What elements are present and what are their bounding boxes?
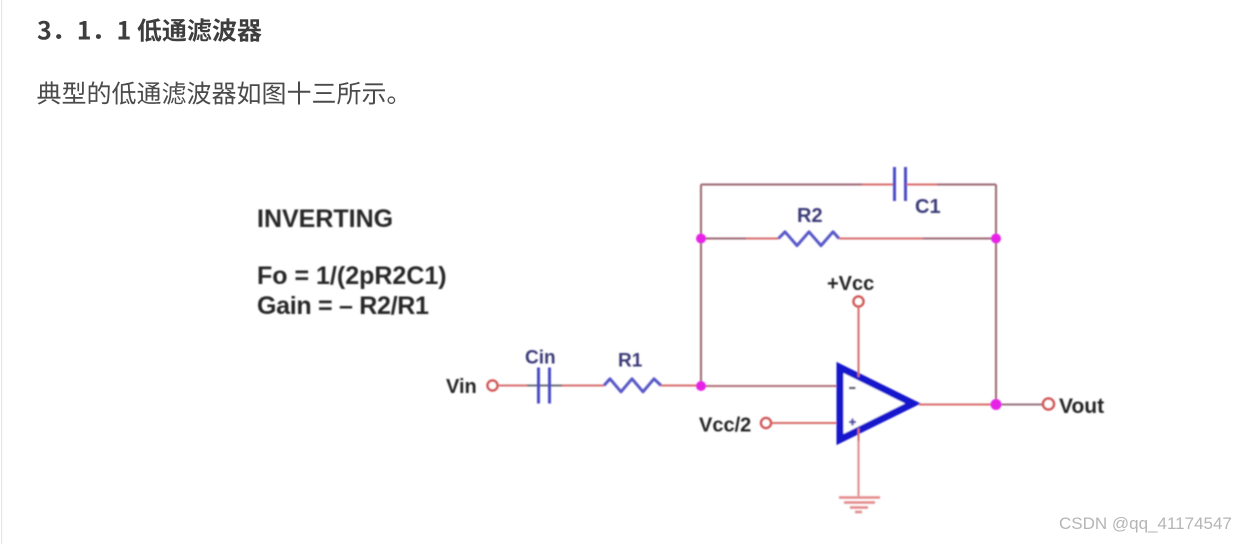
svg-text:Vin: Vin bbox=[446, 376, 477, 398]
terminal Vout bbox=[1043, 399, 1054, 410]
heading 3.1.1 low-pass filter bbox=[38, 18, 262, 42]
svg-text:Cin: Cin bbox=[525, 348, 556, 369]
capacitor Cin bbox=[539, 368, 550, 404]
terminal +Vcc bbox=[854, 297, 864, 307]
capacitor C1 bbox=[895, 167, 906, 201]
op-amp plus pin mark bbox=[849, 419, 856, 426]
svg-text:C1: C1 bbox=[915, 196, 941, 218]
wire: left rail bbox=[700, 185, 702, 387]
left page edge bbox=[1, 0, 2, 544]
wire: top feedback right segment bbox=[937, 184, 996, 186]
svg-text:+Vcc: +Vcc bbox=[827, 273, 874, 295]
svg-text:Gain = – R2/R1: Gain = – R2/R1 bbox=[257, 292, 429, 320]
svg-text:Vout: Vout bbox=[1059, 395, 1104, 418]
wire: op-amp to ground bbox=[858, 430, 860, 496]
node: output junction bbox=[991, 399, 1002, 410]
ground bbox=[839, 498, 880, 513]
node: junction right R2 bbox=[991, 234, 1001, 244]
resistor R1 bbox=[604, 379, 661, 392]
wire: R2 row right maroon bbox=[923, 238, 996, 240]
wire: node A to op-amp inverting input bbox=[701, 385, 838, 387]
wire: dark segment at Cin bbox=[527, 385, 562, 387]
terminal Vin bbox=[488, 381, 498, 391]
wire: Cin to R1 bbox=[562, 385, 604, 387]
node: junction left R2 bbox=[696, 234, 706, 244]
svg-text:INVERTING: INVERTING bbox=[257, 205, 393, 233]
wire: R1 to node A bbox=[661, 385, 700, 387]
wire: R2 row left maroon bbox=[701, 238, 746, 240]
wire: +Vcc to op-amp bbox=[858, 307, 860, 375]
wire: R2 row right red bbox=[839, 238, 923, 240]
paragraph text bbox=[38, 81, 396, 104]
wire: Vin to Cin bbox=[498, 385, 527, 387]
wire: +Vcc stub crossing top edge bbox=[858, 369, 860, 377]
wire: top feedback red segment right of C1 bbox=[907, 184, 938, 186]
svg-text:Vcc/2: Vcc/2 bbox=[699, 415, 751, 437]
svg-text:R1: R1 bbox=[618, 351, 643, 372]
wire: op-amp output red bbox=[919, 404, 996, 406]
wire: top feedback red segment left of C1 bbox=[862, 184, 894, 186]
op-amp U1 bbox=[840, 368, 913, 440]
watermark bbox=[1059, 514, 1232, 534]
wire: ground stub crossing bottom edge bbox=[858, 428, 860, 441]
svg-text:Fo = 1/(2pR2C1): Fo = 1/(2pR2C1) bbox=[257, 262, 447, 290]
wire: right rail bbox=[995, 185, 997, 405]
resistor R2 bbox=[779, 232, 840, 246]
wire: Vcc/2 to op-amp non-inverting input bbox=[772, 422, 838, 424]
wire: top feedback left segment bbox=[701, 184, 862, 186]
op-amp minus pin mark bbox=[849, 387, 856, 389]
terminal Vcc/2 bbox=[761, 418, 771, 428]
wire: output node to Vout bbox=[996, 404, 1043, 406]
svg-text:R2: R2 bbox=[797, 205, 823, 227]
wire: R2 row left red bbox=[746, 238, 779, 240]
node A junction bbox=[696, 381, 706, 391]
